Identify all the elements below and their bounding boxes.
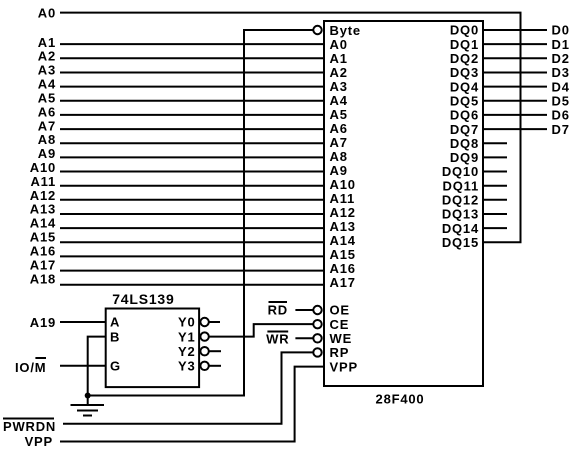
IC U1 pin RP active-low bubble [313, 348, 321, 356]
svg-text:Y3: Y3 [178, 359, 196, 374]
svg-text:D5: D5 [552, 94, 570, 109]
svg-text:A10: A10 [30, 160, 56, 175]
svg-text:A3: A3 [38, 63, 56, 78]
wire stub Y3 [209, 365, 221, 367]
wire WR to U1 WE [295, 337, 313, 339]
junction dot ground node [85, 393, 91, 399]
wire A9 to U1 pin A8 [60, 156, 324, 158]
wire A3 to U1 pin A2 [60, 72, 324, 74]
svg-text:A12: A12 [330, 205, 356, 220]
svg-text:A14: A14 [30, 216, 56, 231]
svg-text:A2: A2 [330, 65, 348, 80]
svg-text:DQ9: DQ9 [450, 150, 479, 165]
svg-text:A8: A8 [38, 132, 56, 147]
svg-text:A3: A3 [330, 79, 348, 94]
svg-text:DQ3: DQ3 [450, 65, 479, 80]
svg-text:A8: A8 [330, 149, 348, 164]
svg-text:RD: RD [268, 303, 288, 318]
wire DQ2 to D2 [483, 57, 547, 59]
svg-text:A: A [110, 315, 120, 330]
svg-text:A17: A17 [30, 257, 56, 272]
wire A2 to U1 pin A1 [60, 57, 324, 59]
wire RD to U1 OE [295, 309, 313, 311]
svg-text:A1: A1 [330, 51, 348, 66]
IC U2 pin Y3 active-low bubble [200, 362, 208, 370]
wire stub DQ8 [483, 142, 507, 144]
IC U2 pin Y0 active-low bubble [200, 318, 208, 326]
svg-text:A16: A16 [30, 243, 56, 258]
wire A4 to U1 pin A3 [60, 86, 324, 88]
wire stub DQ9 [483, 156, 507, 158]
wire A15 to U1 pin A14 [60, 241, 324, 243]
svg-text:74LS139: 74LS139 [112, 291, 174, 307]
wire DQ3 to D3 [483, 72, 547, 74]
svg-text:DQ15: DQ15 [442, 235, 479, 250]
svg-text:A12: A12 [30, 188, 56, 203]
wire A18 to U1 pin A17 [60, 284, 324, 286]
svg-text:Y1: Y1 [178, 329, 196, 344]
wire A1 to U1 pin A0 [60, 43, 324, 45]
PWRDN overline [3, 418, 54, 420]
svg-text:A0: A0 [38, 5, 56, 20]
svg-text:DQ7: DQ7 [450, 122, 479, 137]
WR overline [267, 331, 288, 333]
svg-text:D1: D1 [552, 37, 570, 52]
wire stub Y2 [209, 350, 221, 352]
wire A17 to U1 pin A16 [60, 270, 324, 272]
wire net A0 : top run, down right side, into DQ15 (A-1) [60, 13, 521, 243]
svg-text:DQ1: DQ1 [450, 37, 479, 52]
svg-text:D6: D6 [552, 108, 570, 123]
wire stub DQ12 [483, 199, 507, 201]
IC U2 pin Y2 active-low bubble [200, 347, 208, 355]
svg-text:A6: A6 [330, 121, 348, 136]
svg-text:A6: A6 [38, 104, 56, 119]
svg-text:A4: A4 [330, 93, 348, 108]
svg-text:A5: A5 [330, 107, 348, 122]
wire DQ5 to D5 [483, 100, 547, 102]
wire A19 to U2 pin A [60, 321, 106, 323]
svg-text:VPP: VPP [25, 434, 53, 449]
svg-text:A10: A10 [330, 177, 356, 192]
svg-text:D7: D7 [552, 122, 570, 137]
svg-text:A19: A19 [30, 315, 56, 330]
svg-text:A15: A15 [30, 230, 56, 245]
svg-text:D0: D0 [552, 23, 570, 38]
wire Byte to ground [88, 30, 314, 396]
svg-text:A1: A1 [38, 35, 56, 50]
svg-text:Byte: Byte [330, 23, 361, 38]
svg-text:PWRDN: PWRDN [3, 419, 56, 434]
svg-text:CE: CE [330, 317, 350, 332]
svg-text:DQ0: DQ0 [450, 23, 479, 38]
svg-text:DQ6: DQ6 [450, 108, 479, 123]
svg-text:OE: OE [330, 303, 350, 318]
svg-text:DQ2: DQ2 [450, 51, 479, 66]
svg-text:D2: D2 [552, 51, 570, 66]
svg-text:A14: A14 [330, 233, 356, 248]
wire A7 to U1 pin A6 [60, 128, 324, 130]
svg-text:A11: A11 [30, 174, 56, 189]
wire A5 to U1 pin A4 [60, 100, 324, 102]
svg-text:A0: A0 [330, 37, 348, 52]
wire A12 to U1 pin A11 [60, 199, 324, 201]
svg-text:DQ5: DQ5 [450, 94, 479, 109]
svg-text:RP: RP [330, 345, 350, 360]
IC U1 pin WE active-low bubble [313, 334, 321, 342]
IC U1 pin Byte active-low bubble [313, 26, 321, 34]
IC U1 28F400 body [324, 21, 483, 386]
svg-text:Y0: Y0 [178, 315, 196, 330]
wire DQ4 to D4 [483, 86, 547, 88]
IO/M overline over M [35, 357, 46, 359]
svg-text:DQ12: DQ12 [442, 193, 479, 208]
IC U1 pin OE active-low bubble [313, 306, 321, 314]
IC U1 pin CE active-low bubble [313, 320, 321, 328]
wire DQ1 to D1 [483, 43, 547, 45]
svg-text:D4: D4 [552, 79, 570, 94]
svg-text:A5: A5 [38, 90, 56, 105]
svg-text:DQ4: DQ4 [450, 79, 479, 94]
wire A14 to U1 pin A13 [60, 227, 324, 229]
wire VPP to U1 VPP [60, 367, 324, 442]
wire Y1 to U1 CE [209, 324, 313, 337]
wire A11 to U1 pin A10 [60, 185, 324, 187]
wire A16 to U1 pin A15 [60, 255, 324, 257]
svg-text:A18: A18 [30, 271, 56, 286]
wire IO/M to U2 pin G [60, 365, 106, 367]
svg-text:A16: A16 [330, 261, 356, 276]
wire A10 to U1 pin A9 [60, 171, 324, 173]
wire A8 to U1 pin A7 [60, 142, 324, 144]
svg-text:A13: A13 [30, 202, 56, 217]
wire stub DQ11 [483, 185, 507, 187]
svg-text:VPP: VPP [330, 359, 358, 374]
wire DQ0 to D0 [483, 29, 547, 31]
svg-text:G: G [110, 359, 121, 374]
svg-text:A15: A15 [330, 247, 356, 262]
svg-text:A11: A11 [330, 191, 356, 206]
wire U2 pin B to ground [88, 337, 106, 396]
svg-text:IO/M: IO/M [15, 360, 46, 375]
svg-text:A4: A4 [38, 77, 56, 92]
svg-text:B: B [110, 329, 120, 344]
RD overline [269, 301, 288, 303]
svg-text:D3: D3 [552, 65, 570, 80]
wire DQ7 to D7 [483, 128, 547, 130]
wire PWRDN to U1 RP [63, 352, 313, 423]
svg-text:DQ13: DQ13 [442, 207, 479, 222]
wire stub Y0 [209, 321, 220, 323]
svg-text:A17: A17 [330, 275, 356, 290]
svg-text:A2: A2 [38, 49, 56, 64]
wire stub DQ14 [483, 227, 507, 229]
svg-text:A9: A9 [38, 146, 56, 161]
wire DQ6 to D6 [483, 114, 547, 116]
svg-text:DQ8: DQ8 [450, 136, 479, 151]
wire stub DQ10 [483, 171, 507, 173]
svg-text:WE: WE [330, 331, 353, 346]
svg-text:A7: A7 [38, 118, 56, 133]
ground symbol [71, 396, 105, 416]
svg-text:DQ10: DQ10 [442, 164, 479, 179]
IC U2 74LS139 body [106, 309, 199, 388]
wire stub DQ13 [483, 213, 507, 215]
svg-text:Y2: Y2 [178, 344, 196, 359]
svg-text:A7: A7 [330, 135, 348, 150]
wire A6 to U1 pin A5 [60, 114, 324, 116]
IC U2 pin Y1 active-low bubble [200, 332, 208, 340]
svg-text:A9: A9 [330, 163, 348, 178]
svg-text:WR: WR [266, 332, 289, 347]
wire A13 to U1 pin A12 [60, 213, 324, 215]
svg-text:DQ11: DQ11 [443, 178, 479, 193]
svg-text:DQ14: DQ14 [442, 221, 479, 236]
svg-text:A13: A13 [330, 219, 356, 234]
svg-text:28F400: 28F400 [376, 392, 425, 407]
